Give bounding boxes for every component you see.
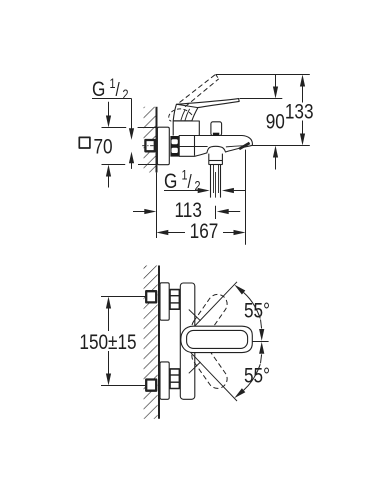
lever inner creases: [185, 109, 190, 121]
ext line lever raised tip: [216, 74, 310, 76]
dim label G1/2 top: [92, 76, 129, 102]
square nut upper: [146, 291, 156, 302]
aerator mark: [239, 143, 249, 149]
escutcheon lower: [160, 362, 169, 399]
shower pipe: [210, 165, 212, 198]
G1/2 lower arrows: [164, 190, 198, 192]
lever plan inner: [187, 330, 248, 348]
lever base ghost (dashed): [169, 109, 192, 121]
hex nut upper: [170, 290, 179, 310]
axis line up-right: [190, 282, 237, 331]
escutcheon upper: [160, 283, 169, 320]
text 55 lower: [244, 364, 270, 388]
svg-text:55°: 55°: [244, 364, 270, 388]
union nut (dark): [170, 136, 179, 157]
arc upper with arrowheads: [244, 293, 261, 319]
G1/2 leader arrows: [131, 99, 133, 129]
supply square on wall: [145, 140, 154, 151]
dim 150±15 line and arrows: [106, 297, 111, 309]
dim 70 arrows: [108, 102, 110, 116]
svg-text:/: /: [116, 79, 120, 101]
svg-text:150±15: 150±15: [79, 330, 136, 354]
dim label G1/2 lower: [164, 167, 201, 193]
svg-text:133: 133: [285, 100, 314, 124]
wall surface line plan view: [158, 266, 160, 419]
wall surface line top view: [156, 107, 158, 173]
ext line spout bottom: [252, 145, 309, 147]
pedestal (cartridge cover): [173, 121, 199, 136]
axis line down-right: [190, 352, 237, 401]
axis back extension upper: [189, 310, 201, 321]
dim 113: [133, 211, 145, 213]
svg-text:/: /: [188, 170, 192, 192]
supply centerline: [142, 145, 158, 147]
ext line lever top: [240, 98, 283, 100]
0 deg reference line: [252, 341, 268, 343]
svg-text:167: 167: [190, 219, 219, 243]
svg-text:55°: 55°: [244, 299, 270, 323]
svg-text:2: 2: [123, 87, 129, 102]
lever raised position (dashed): [180, 74, 216, 102]
body seam vertical: [194, 136, 196, 156]
body seam horizontal: [179, 146, 207, 148]
dim 70 extension lines: [102, 127, 127, 129]
square symbol + 70: [79, 137, 90, 148]
wall line extension down to 167 dim: [156, 172, 158, 238]
escutcheon flange: [157, 127, 169, 165]
dashed lever position up: [188, 291, 231, 341]
shower outlet cylinder: [208, 154, 210, 165]
svg-text:70: 70: [94, 135, 113, 159]
svg-text:G: G: [164, 169, 177, 193]
wall hatching top view: [144, 107, 157, 173]
dim 90: [275, 75, 277, 88]
text 55 upper: [244, 299, 270, 323]
diverter knob: [211, 122, 222, 136]
body bar plan: [180, 283, 195, 399]
wall hatching plan view: [144, 266, 158, 419]
axis back extension lower: [189, 362, 201, 373]
dim 150±15 extension lines: [101, 296, 145, 298]
arc lower with arrowheads: [244, 364, 261, 390]
hex nut lower: [170, 369, 179, 389]
faucet body and spout silhouette: [179, 136, 252, 157]
dim 133: [300, 75, 305, 87]
dashed lever position down: [188, 342, 231, 392]
pivot cross mark: [198, 336, 212, 347]
lever plan outer: [181, 326, 253, 352]
lever handle solid: [173, 99, 239, 121]
dim 167: [156, 230, 168, 235]
svg-text:90: 90: [266, 110, 285, 134]
square nut lower: [146, 380, 156, 391]
lever base top edge: [176, 104, 198, 107]
